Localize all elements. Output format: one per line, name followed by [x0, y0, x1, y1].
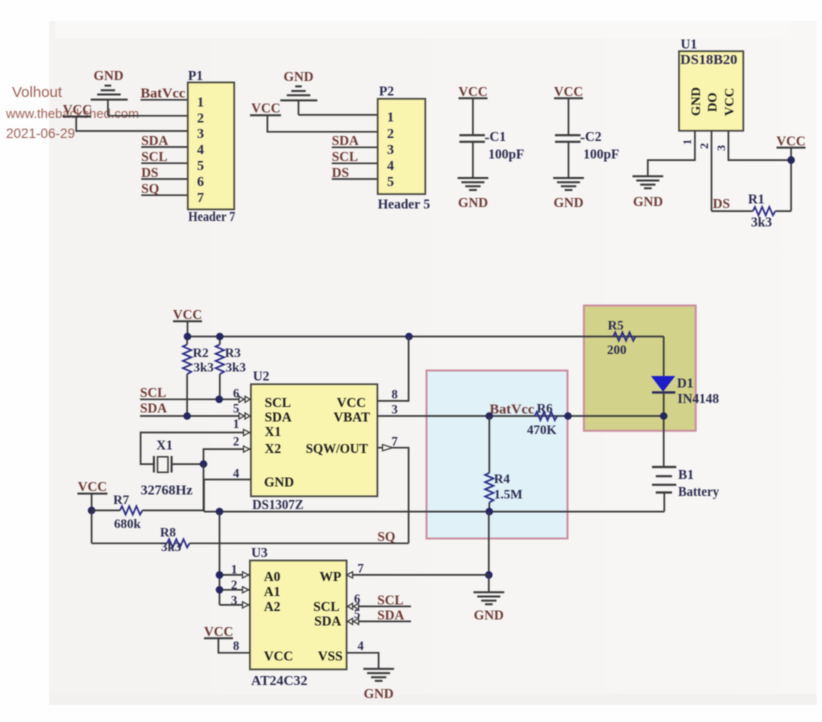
wire U3 A0: [220, 574, 250, 576]
junction crystal/X2/R7: [200, 460, 208, 468]
svg-text:R1: R1: [748, 192, 765, 207]
svg-text:VCC: VCC: [264, 649, 293, 664]
svg-text:7: 7: [358, 562, 364, 576]
ground GND (U1): [633, 176, 664, 209]
svg-text:U1: U1: [681, 37, 698, 52]
svg-text:470K: 470K: [527, 422, 558, 437]
wire U3 VSS: [347, 653, 379, 669]
ground GND (WP): [474, 575, 505, 623]
svg-text:GND: GND: [458, 195, 488, 210]
svg-text:7: 7: [392, 435, 398, 449]
svg-text:GND: GND: [364, 686, 394, 701]
svg-text:U3: U3: [251, 545, 268, 560]
svg-text:GND: GND: [633, 194, 663, 209]
svg-text:P2: P2: [379, 84, 394, 99]
junction U2 pin8 riser: [405, 333, 413, 341]
svg-text:VCC: VCC: [204, 624, 233, 639]
wire P2 pin1 (GND): [299, 114, 378, 116]
svg-text:SDA: SDA: [314, 614, 341, 629]
svg-text:IN4148: IN4148: [678, 391, 720, 406]
svg-text:GND: GND: [554, 195, 584, 210]
svg-text:A1: A1: [264, 584, 281, 599]
junction R2 bottom on SDA: [183, 412, 191, 420]
wire U3 WP: [347, 574, 489, 576]
svg-text:1: 1: [387, 111, 394, 126]
svg-text:R6: R6: [537, 401, 553, 416]
junction A1: [216, 586, 224, 594]
svg-text:AT24C32: AT24C32: [251, 673, 308, 688]
wire P2 pin3: [332, 146, 378, 148]
svg-text:R5: R5: [608, 318, 624, 333]
junction WP rail: [485, 571, 493, 579]
resistor R5: [607, 318, 636, 358]
svg-text:DS1307Z: DS1307Z: [252, 497, 303, 512]
svg-text:2021-06-29: 2021-06-29: [6, 126, 75, 141]
wire SQW/OUT riser: [377, 448, 408, 544]
svg-text:R4: R4: [494, 471, 510, 486]
svg-text:SDA: SDA: [332, 133, 359, 148]
svg-text:100pF: 100pF: [488, 147, 524, 162]
pin arrow SQW/OUT (U2): [383, 445, 393, 451]
power VCC (P1): [63, 102, 188, 131]
svg-text:DS18B20: DS18B20: [680, 52, 737, 67]
svg-text:SCL: SCL: [141, 149, 167, 164]
pin arrow SDA (U3): [348, 618, 359, 624]
svg-text:3: 3: [197, 127, 204, 142]
svg-text:200: 200: [607, 342, 627, 357]
svg-text:GND: GND: [264, 475, 294, 490]
svg-text:Header 5: Header 5: [378, 197, 431, 212]
resistor R2: [183, 337, 214, 417]
ground GND (P1): [91, 68, 128, 116]
svg-text:SQW/OUT: SQW/OUT: [306, 441, 368, 456]
svg-text:VCC: VCC: [722, 88, 737, 116]
pin arrow SCL (U3): [348, 603, 359, 609]
svg-text:D1: D1: [677, 376, 694, 391]
wire U3 A2: [220, 604, 250, 606]
wire X1 net: [141, 433, 251, 465]
wire U3 SCL: [347, 605, 411, 607]
highlight box olive (R5/D1): [584, 306, 696, 431]
wire VCC down to R8: [91, 510, 93, 543]
pin arrow X1 (U2): [244, 429, 250, 435]
power VCC (R7): [77, 479, 107, 510]
wire U1 pin1 to ground: [648, 131, 695, 176]
svg-text:1: 1: [680, 139, 694, 145]
svg-text:SDA: SDA: [377, 607, 404, 622]
svg-text:8: 8: [233, 639, 239, 653]
power VCC (C1): [458, 84, 487, 135]
crystal X1: [141, 438, 193, 498]
svg-text:7: 7: [197, 191, 204, 206]
junction A0: [216, 571, 224, 579]
svg-text:SDA: SDA: [140, 400, 167, 415]
wire P1 pin5: [141, 162, 188, 164]
power VCC (U3): [204, 624, 250, 653]
svg-text:3: 3: [392, 403, 398, 417]
wire C1 to ground: [472, 142, 474, 178]
battery B1: [652, 467, 719, 512]
ground GND (U3): [363, 669, 394, 701]
wire X2 net: [204, 449, 251, 464]
wire P1 pin1: [141, 99, 188, 101]
wire U3 SDA: [347, 620, 411, 622]
svg-text:R3: R3: [225, 345, 241, 360]
svg-text:SQ: SQ: [377, 529, 395, 544]
junction R4 bottom: [486, 508, 494, 516]
svg-text:DS: DS: [141, 165, 158, 180]
wire crystal to X2 riser: [172, 463, 204, 465]
junction diode/BatVcc: [660, 412, 668, 420]
svg-text:R8: R8: [160, 525, 176, 540]
svg-text:VCC: VCC: [458, 84, 487, 99]
svg-text:X1: X1: [265, 424, 282, 439]
svg-text:SQ: SQ: [141, 181, 159, 196]
IC U2 DS1307Z: [251, 369, 378, 513]
svg-text:1: 1: [233, 417, 239, 431]
svg-text:DS: DS: [332, 165, 349, 180]
junction R6 right: [564, 412, 572, 420]
svg-text:VCC: VCC: [776, 133, 805, 148]
wire top VCC rail: [188, 336, 664, 338]
wire P1 pin7: [141, 194, 188, 196]
svg-text:Header 7: Header 7: [188, 209, 235, 224]
svg-text:P1: P1: [188, 68, 203, 83]
IC U3 AT24C32: [250, 545, 347, 688]
junction BatVcc/R4: [486, 412, 494, 420]
svg-text:A0: A0: [264, 569, 281, 584]
svg-text:SCL: SCL: [313, 599, 339, 614]
capacitor C1: [459, 129, 524, 162]
wire diode to battery: [663, 392, 665, 467]
wire U3 A1: [220, 589, 250, 591]
power VCC (U2 top): [173, 307, 202, 337]
junction VCC R7/R8: [88, 507, 96, 515]
svg-text:VCC: VCC: [173, 307, 202, 322]
svg-text:2: 2: [387, 127, 394, 142]
svg-text:3k3: 3k3: [161, 539, 182, 554]
svg-text:2: 2: [233, 435, 239, 449]
pin arrow A2 (U3): [243, 602, 249, 608]
junction R3 bottom on SCL: [215, 396, 223, 404]
svg-text:2: 2: [197, 112, 204, 127]
svg-text:GND: GND: [474, 608, 504, 623]
wire P2 pin4: [332, 162, 378, 164]
svg-text:BatVcc: BatVcc: [490, 402, 535, 417]
svg-text:VCC: VCC: [554, 84, 583, 99]
wire U2 pin4 GND: [204, 480, 251, 512]
svg-text:1: 1: [197, 96, 204, 111]
svg-text:VCC: VCC: [337, 395, 366, 410]
svg-text:BatVcc: BatVcc: [141, 86, 186, 101]
pin arrow SCL (U2): [239, 396, 250, 402]
svg-text:5: 5: [233, 402, 239, 416]
svg-text:R7: R7: [113, 492, 129, 507]
svg-text:R2: R2: [193, 345, 209, 360]
wire A-pins riser: [219, 512, 221, 605]
svg-text:GND: GND: [284, 69, 314, 84]
svg-text:3k3: 3k3: [226, 360, 247, 375]
svg-text:DS: DS: [713, 196, 730, 211]
wire P1 pin6: [141, 178, 188, 180]
wire C2 to ground: [568, 142, 570, 178]
sensor U1 DS18B20: [679, 37, 743, 131]
svg-text:B1: B1: [678, 467, 694, 482]
svg-text:2: 2: [697, 143, 711, 149]
connector P2: [378, 84, 431, 212]
power VCC (C2): [554, 84, 583, 135]
pin arrow A0 (U3): [243, 572, 249, 578]
wire U1 pin3 to VCC: [728, 131, 791, 160]
svg-text:5: 5: [197, 159, 204, 174]
svg-text:A2: A2: [264, 599, 281, 614]
svg-text:GND: GND: [94, 68, 124, 83]
svg-text:SCL: SCL: [265, 395, 291, 410]
wire P2 pin5: [332, 178, 378, 180]
pin arrow WP (U3): [347, 572, 353, 578]
svg-text:SCL: SCL: [332, 149, 358, 164]
junction U1 VCC: [787, 156, 795, 164]
svg-text:3: 3: [714, 145, 728, 151]
wire R4 junction down to WP rail: [488, 512, 490, 575]
svg-text:680k: 680k: [114, 516, 142, 531]
svg-text:VSS: VSS: [318, 649, 343, 664]
svg-text:8: 8: [392, 388, 398, 402]
svg-text:X2: X2: [265, 441, 282, 456]
resistor R8: [92, 525, 409, 555]
svg-text:SDA: SDA: [141, 133, 168, 148]
svg-text:DO: DO: [704, 93, 719, 113]
svg-text:4: 4: [197, 143, 204, 158]
svg-text:U2: U2: [253, 369, 270, 384]
ground GND (C1): [458, 178, 489, 210]
resistor R6: [527, 401, 558, 438]
diode D1: [652, 376, 719, 407]
wire U1 pin2 (DO): [711, 131, 713, 211]
wire P1 pin4: [141, 146, 188, 148]
svg-text:4: 4: [387, 159, 394, 174]
svg-text:4: 4: [358, 639, 365, 653]
svg-text:X1: X1: [156, 438, 173, 453]
svg-text:32768Hz: 32768Hz: [141, 483, 193, 498]
capacitor C2: [555, 129, 619, 162]
svg-text:WP: WP: [320, 569, 342, 584]
svg-text:3k3: 3k3: [194, 360, 215, 375]
resistor R1: [712, 192, 792, 230]
svg-text:Volhout: Volhout: [12, 84, 63, 101]
wire GND rail: [204, 511, 664, 513]
junction GND rail left: [216, 508, 224, 516]
wire R7 to crystal junction: [203, 464, 205, 510]
pin arrow X2 (U2): [244, 446, 250, 452]
connector P1: [188, 68, 236, 224]
power VCC (U1): [776, 133, 805, 211]
ground GND (P2): [280, 69, 317, 115]
pin arrow A1 (U3): [243, 587, 249, 593]
svg-text:3: 3: [387, 143, 394, 158]
svg-text:SDA: SDA: [265, 410, 292, 425]
pin arrow SDA (U2): [239, 413, 250, 419]
ground GND (C2): [553, 178, 584, 210]
svg-text:3k3: 3k3: [751, 215, 772, 230]
wire SDA to U2 pin5: [140, 415, 251, 417]
power VCC (P2): [250, 101, 378, 132]
resistor R7: [92, 492, 204, 531]
svg-text:SCL: SCL: [140, 385, 166, 400]
junction VCC rail left: [184, 333, 192, 341]
svg-text:C1: C1: [490, 129, 507, 144]
svg-text:VCC: VCC: [63, 102, 92, 117]
svg-text:4: 4: [233, 467, 240, 481]
svg-text:VCC: VCC: [78, 479, 107, 494]
svg-text:VCC: VCC: [251, 101, 280, 116]
wire R5 to diode: [663, 337, 665, 377]
junction R3 top: [216, 333, 224, 341]
svg-text:GND: GND: [688, 87, 703, 116]
svg-text:6: 6: [233, 387, 239, 401]
svg-text:100pF: 100pF: [583, 147, 619, 162]
svg-text:Battery: Battery: [678, 484, 719, 499]
wire P1 pin2 (GND): [108, 115, 188, 117]
svg-text:VBAT: VBAT: [333, 410, 370, 425]
resistor R3: [216, 337, 247, 400]
svg-text:C2: C2: [585, 129, 602, 144]
highlight box blue (BatVcc/R4): [427, 371, 568, 539]
svg-text:1.5M: 1.5M: [494, 487, 523, 502]
wire U2 pin8: [377, 337, 408, 401]
wire VBAT/BatVcc net: [377, 415, 663, 417]
svg-text:SCL: SCL: [377, 592, 403, 607]
svg-text:6: 6: [197, 175, 204, 190]
resistor R4: [485, 416, 522, 512]
svg-text:5: 5: [387, 175, 394, 190]
wire SCL to U2 pin6: [140, 398, 251, 400]
